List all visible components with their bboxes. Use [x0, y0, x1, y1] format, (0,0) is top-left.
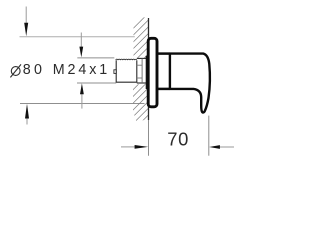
dimension ø80 upper leader line [25, 7, 27, 25]
wall hatching upper [18, 8, 262, 130]
dimension 70 right extension line [208, 116, 210, 156]
wall opening dark edge [146, 56, 150, 89]
neck bottom line [157, 88, 170, 91]
cartridge body [116, 60, 137, 82]
label ø80 [10, 64, 21, 77]
sleeve bottom line [137, 82, 146, 84]
dimension 70 left arrow [135, 145, 149, 149]
dimension ø80 bottom extension line [20, 103, 145, 105]
dimension ø80 upper arrow [24, 23, 28, 37]
dimension 70 left tail line [121, 146, 136, 148]
neck top line [157, 52, 170, 55]
dimension 70 left extension line [148, 110, 150, 156]
dimension M24x1 top extension line [77, 57, 114, 59]
dimension M24x1 lower leader line [81, 94, 83, 109]
cartridge left tab [114, 70, 116, 74]
dimension ø80 lower arrow [25, 104, 29, 119]
sleeve inner step top [137, 64, 142, 66]
svg-text:70: 70 [167, 129, 189, 150]
svg-text:80: 80 [23, 62, 46, 78]
dimension ø80 lower leader line [26, 118, 28, 125]
dimension M24x1 upper arrow [79, 47, 83, 58]
sleeve top line [137, 57, 146, 59]
sleeve inner step bottom [137, 77, 142, 79]
dimension ø80 top extension line [20, 36, 135, 38]
cartridge thread crest (wavy top edge) [116, 58, 137, 61]
svg-text:M24x1: M24x1 [53, 62, 110, 78]
dimension 70 right tail line [219, 146, 234, 148]
dimension 70 right arrow [209, 145, 220, 149]
wall hatching lower [18, 8, 262, 130]
flange (escutcheon) [148, 38, 157, 107]
wall face line [148, 18, 150, 120]
dimension M24x1 upper leader line [80, 33, 82, 48]
dimension M24x1 bottom extension line [77, 82, 116, 84]
sleeve right edge [141, 58, 143, 83]
dimension M24x1 lower arrow [80, 83, 84, 94]
handle lever [170, 54, 210, 113]
